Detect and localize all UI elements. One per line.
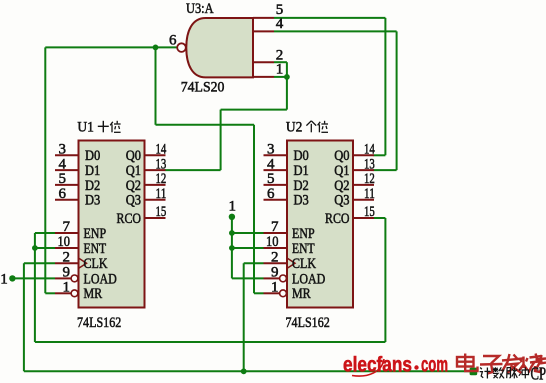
svg-text:10: 10	[266, 234, 279, 250]
svg-text:11: 11	[364, 186, 375, 202]
svg-text:4: 4	[267, 156, 275, 172]
svg-text:5: 5	[59, 171, 67, 187]
svg-text:13: 13	[364, 156, 375, 172]
svg-text:ENP: ENP	[84, 226, 107, 242]
svg-text:ENT: ENT	[292, 241, 315, 257]
svg-text:D1: D1	[294, 163, 309, 179]
svg-text:D3: D3	[294, 193, 309, 209]
svg-text:MR: MR	[292, 286, 311, 302]
svg-text:CLK: CLK	[84, 256, 108, 272]
svg-text:9: 9	[271, 265, 279, 281]
svg-text:5: 5	[267, 171, 275, 187]
svg-text:LOAD: LOAD	[84, 271, 117, 287]
svg-text:1: 1	[276, 61, 284, 77]
svg-text:elecfans: elecfans	[343, 354, 412, 377]
svg-text:D0: D0	[294, 148, 309, 164]
svg-text:6: 6	[169, 33, 177, 49]
svg-text:15: 15	[364, 204, 375, 220]
svg-text:Q1: Q1	[126, 163, 141, 179]
svg-text:U1: U1	[77, 120, 94, 136]
svg-text:CLK: CLK	[292, 256, 316, 272]
svg-text:Q1: Q1	[334, 163, 349, 179]
svg-text:12: 12	[364, 171, 375, 187]
svg-text:U2: U2	[286, 120, 303, 136]
svg-text:D2: D2	[85, 178, 100, 194]
svg-text:LOAD: LOAD	[292, 271, 325, 287]
svg-text:com: com	[421, 354, 448, 377]
svg-text:ENP: ENP	[292, 226, 315, 242]
svg-text:D1: D1	[85, 163, 100, 179]
svg-text:Q0: Q0	[126, 148, 141, 164]
svg-text:12: 12	[156, 171, 167, 187]
svg-text:15: 15	[156, 204, 167, 220]
svg-text:13: 13	[156, 156, 167, 172]
svg-text:9: 9	[63, 265, 71, 281]
svg-text:6: 6	[59, 186, 67, 202]
svg-text:10: 10	[58, 234, 71, 250]
svg-text:1: 1	[63, 280, 71, 296]
svg-text:14: 14	[364, 142, 375, 158]
svg-text:11: 11	[156, 186, 167, 202]
svg-text:1: 1	[0, 271, 8, 287]
svg-text:ENT: ENT	[84, 241, 107, 257]
svg-text:2: 2	[63, 249, 71, 265]
svg-text:6: 6	[267, 186, 275, 202]
svg-text:4: 4	[276, 16, 284, 32]
svg-text:RCO: RCO	[117, 211, 142, 227]
svg-text:7: 7	[63, 219, 71, 235]
svg-text:D0: D0	[85, 148, 100, 164]
svg-text:2: 2	[271, 249, 279, 265]
svg-text:Q2: Q2	[334, 178, 349, 194]
svg-text:Q0: Q0	[334, 148, 349, 164]
svg-text:RCO: RCO	[325, 211, 350, 227]
svg-text:4: 4	[59, 156, 67, 172]
svg-text:1: 1	[271, 280, 279, 296]
svg-text:74LS162: 74LS162	[77, 315, 121, 331]
svg-text:D3: D3	[85, 193, 100, 209]
svg-text:7: 7	[271, 219, 279, 235]
svg-text:3: 3	[59, 142, 67, 158]
svg-text:Q3: Q3	[126, 193, 141, 209]
svg-text:Q2: Q2	[126, 178, 141, 194]
svg-text:MR: MR	[84, 286, 103, 302]
svg-text:74LS162: 74LS162	[286, 315, 330, 331]
svg-text:U3:A: U3:A	[186, 1, 214, 17]
svg-text:CP: CP	[531, 364, 546, 383]
svg-text:14: 14	[156, 142, 167, 158]
svg-text:D2: D2	[294, 178, 309, 194]
svg-text:3: 3	[267, 142, 275, 158]
svg-text:74LS20: 74LS20	[181, 79, 225, 95]
svg-text:1: 1	[229, 199, 237, 215]
svg-text:Q3: Q3	[334, 193, 349, 209]
